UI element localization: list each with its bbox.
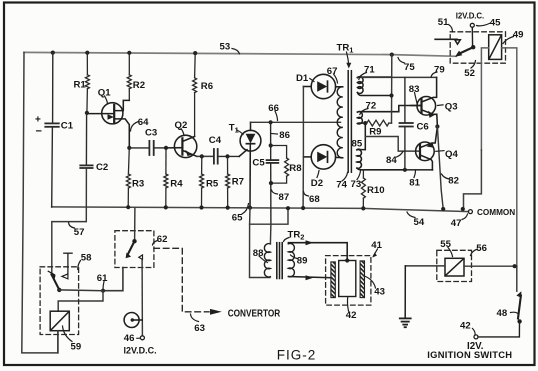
resistor R2: [127, 53, 131, 101]
node R5 rail junction: [199, 205, 203, 209]
svg-text:C6: C6: [417, 122, 429, 133]
leader 55: [448, 248, 453, 257]
svg-text:R5: R5: [206, 178, 219, 189]
svg-text:81: 81: [409, 177, 420, 188]
svg-text:R1: R1: [74, 79, 87, 90]
LEADERS: [63, 23, 518, 342]
node right rail 56 junction: [513, 264, 517, 268]
svg-text:I2V.D.C.: I2V.D.C.: [124, 346, 157, 356]
arrow convertor: [210, 309, 222, 315]
leader 52: [471, 61, 476, 69]
lamp electrode 43 left bar: [331, 262, 335, 298]
leader 84: [397, 152, 404, 158]
svg-text:C4: C4: [209, 135, 222, 146]
leader 49: [503, 37, 514, 44]
leader 53: [232, 49, 240, 54]
svg-text:67: 67: [327, 66, 338, 77]
leader 73: [357, 171, 361, 180]
svg-text:C2: C2: [96, 162, 108, 173]
node 66 junction: [269, 120, 273, 124]
svg-text:59: 59: [71, 341, 82, 352]
svg-text:53: 53: [220, 41, 231, 52]
svg-text:82: 82: [448, 175, 459, 186]
diode D2: [303, 145, 342, 169]
node lamp electrode top junction: [345, 258, 349, 262]
svg-text:74: 74: [336, 180, 347, 191]
leader 67: [334, 74, 338, 83]
dashed wire 63 to convertor: [154, 248, 209, 311]
terminal 46: [140, 336, 144, 340]
svg-text:66: 66: [268, 103, 279, 114]
svg-text:43: 43: [374, 286, 385, 297]
wire 84 path winding 85 to Q4 base: [365, 137, 420, 152]
wire 79 box top edge: [357, 76, 436, 78]
transformer TR1 primary winding 67: [337, 87, 343, 158]
svg-text:C5: C5: [252, 158, 265, 169]
node bus junction 75: [390, 53, 394, 57]
leader 89: [291, 255, 298, 259]
dashed enclosure 55: [437, 250, 472, 281]
node R8 bottom junction: [269, 181, 273, 185]
svg-text:58: 58: [81, 253, 92, 264]
node 81 C6 junction: [403, 168, 407, 172]
resistor R8: [271, 146, 289, 184]
leader T1: [237, 130, 244, 135]
node R3 rail junction: [126, 205, 130, 209]
leader 54: [407, 212, 415, 218]
transformer TR2 core: [277, 243, 282, 279]
lamp 46: [124, 313, 142, 328]
svg-text:75: 75: [404, 62, 415, 73]
wire left rail down to relay 59: [22, 52, 58, 353]
leader TR2: [284, 238, 290, 242]
svg-text:79: 79: [434, 64, 445, 75]
switch 51 arm: [455, 23, 475, 57]
svg-text:48: 48: [497, 308, 508, 319]
node winding 71 bottom junction: [389, 93, 393, 97]
svg-text:COMMON: COMMON: [477, 208, 515, 217]
leader 81: [414, 171, 416, 178]
dashed enclosure 58: [40, 267, 79, 335]
svg-text:52: 52: [464, 68, 475, 79]
svg-text:83: 83: [409, 84, 420, 95]
leader 51: [449, 25, 453, 32]
capacitor C1: [45, 53, 59, 207]
leader 45: [477, 23, 491, 26]
svg-text:63: 63: [194, 323, 205, 334]
wire Q2 emitter row: [197, 155, 214, 157]
svg-text:42: 42: [346, 310, 357, 321]
resistor R5: [200, 156, 204, 208]
svg-text:R2: R2: [133, 80, 145, 91]
svg-text:85: 85: [352, 138, 363, 149]
leader Q4: [436, 150, 444, 153]
capacitor C3: [129, 141, 166, 155]
transformer TR1 core: [348, 71, 351, 173]
leader 58: [78, 261, 81, 270]
svg-text:55: 55: [440, 239, 451, 250]
transistor Q1: [87, 100, 129, 147]
svg-text:64: 64: [138, 117, 149, 128]
resistor R7: [226, 156, 230, 208]
leader Q3: [438, 104, 444, 107]
resistor R3: [126, 148, 130, 208]
resistor R9: [367, 120, 392, 126]
leader 47: [462, 214, 468, 220]
relay 55: [445, 258, 464, 276]
svg-text:62: 62: [157, 234, 168, 245]
node 61 junction: [101, 289, 105, 293]
dashed enclosure 41: [326, 256, 371, 306]
node emitter rail junction: [441, 207, 445, 211]
wire T1 cathode lower loop TR2: [250, 208, 289, 278]
node Q1 base junction: [85, 111, 89, 115]
leader 75: [398, 58, 405, 64]
node 64 junction: [127, 146, 131, 150]
node 52 rail junction: [461, 207, 465, 211]
leader TR1 arrowhead: [346, 63, 351, 69]
svg-text:47: 47: [451, 218, 462, 229]
svg-text:88: 88: [253, 248, 264, 259]
dashed enclosure 62: [115, 231, 154, 268]
svg-text:T1: T1: [229, 123, 239, 135]
svg-text:84: 84: [386, 155, 397, 166]
wire emitters to rail: [437, 127, 443, 210]
leader 42 ignition: [473, 329, 476, 336]
svg-text:R9: R9: [369, 127, 381, 138]
svg-text:72: 72: [366, 101, 377, 112]
transformer TR1 secondary winding 72: [357, 106, 421, 124]
svg-text:56: 56: [476, 243, 487, 254]
ground: [400, 266, 411, 327]
wire 62 contact to lamp 46 terminal: [141, 260, 143, 336]
node TR2 right rail junction: [286, 206, 290, 210]
svg-text:51: 51: [438, 17, 449, 28]
switch 48 ignition: [474, 291, 522, 339]
svg-text:TR2: TR2: [288, 229, 305, 241]
leader 56: [471, 249, 478, 256]
svg-text:+: +: [35, 115, 41, 126]
svg-text:Q3: Q3: [445, 102, 458, 113]
node bus junction R6: [193, 51, 197, 55]
leader 74: [342, 173, 348, 182]
leader 48: [511, 312, 518, 313]
wire node 66 row: [251, 121, 341, 123]
leader TR1 arrow: [347, 52, 349, 66]
wire TR2 secondary top lead to lamp: [288, 240, 347, 260]
svg-text:D1: D1: [296, 73, 309, 84]
leader 68: [304, 192, 309, 197]
wire TR2 secondary bottom lead to lamp: [288, 275, 331, 280]
wire diode branch 68: [302, 87, 304, 209]
node R7 junction: [225, 154, 229, 158]
leader 61: [103, 282, 104, 290]
leader 41 arrow: [373, 249, 377, 256]
wire bus to R9 vertical 75 branch: [391, 55, 393, 124]
leader 46: [137, 337, 141, 339]
wire relay right tap down right rail: [502, 48, 517, 266]
wire relay left tap to common: [481, 48, 488, 150]
relay 59: [50, 311, 69, 331]
leader 43: [366, 277, 376, 289]
wire top supply bus 53: [24, 52, 456, 56]
terminal COMMON: [468, 210, 472, 214]
wire 57 from C2 to switch 58: [52, 168, 87, 273]
svg-text:R3: R3: [132, 178, 144, 189]
svg-text:87: 87: [279, 192, 290, 203]
leader 62: [153, 241, 158, 246]
leader Q1: [105, 96, 108, 104]
leader 41 arrowhead: [373, 253, 378, 258]
svg-text:IGNITION SWITCH: IGNITION SWITCH: [427, 349, 512, 360]
transformer TR1 secondary winding 71: [357, 77, 391, 96]
svg-text:TR1: TR1: [337, 43, 354, 55]
node R10 rail junction: [361, 206, 365, 210]
svg-text:45: 45: [490, 17, 501, 28]
svg-text:D2: D2: [311, 178, 323, 189]
relay 49: [489, 35, 502, 60]
capacitor C2: [80, 113, 92, 168]
wire ground to relay 55 to right rail: [405, 265, 445, 267]
svg-text:86: 86: [279, 130, 290, 141]
leader 79: [431, 72, 437, 77]
node 68 rail junction: [301, 206, 305, 210]
thyristor T1: [239, 122, 261, 207]
node R9 left junction: [363, 121, 367, 125]
transistor Q2: [166, 135, 197, 157]
resistor R1: [85, 53, 89, 113]
svg-text:R8: R8: [289, 163, 302, 174]
svg-text:65: 65: [232, 212, 243, 223]
leader 82: [442, 174, 450, 179]
leader 42 lamp: [347, 297, 348, 311]
leader 72: [360, 109, 368, 115]
switch 51 contact stub: [435, 39, 460, 44]
leader 59: [63, 326, 73, 342]
svg-text:FIG-2: FIG-2: [277, 347, 317, 362]
svg-text:46: 46: [124, 333, 135, 344]
wire 62 box left lead to node 61: [103, 268, 123, 291]
leader Q2: [181, 129, 184, 136]
transistor Q3: [411, 77, 437, 126]
resistor R4: [164, 148, 168, 208]
node bus junction R2: [127, 51, 131, 55]
svg-text:C1: C1: [61, 120, 74, 131]
svg-text:42: 42: [460, 320, 471, 331]
node R7 rail junction: [226, 206, 230, 210]
node Q2 base junction: [164, 146, 168, 150]
wire switch 58 arm to node 61: [59, 289, 103, 292]
wire 81 conductor box bottom: [405, 169, 433, 171]
svg-text:R4: R4: [170, 178, 183, 189]
node Q3 Q4 emitter junction: [435, 124, 439, 128]
svg-text:49: 49: [513, 29, 524, 40]
svg-text:89: 89: [297, 255, 308, 266]
node bus junction C1: [51, 51, 55, 55]
svg-text:R6: R6: [201, 81, 213, 92]
leader 66: [275, 111, 278, 121]
svg-text:Q1: Q1: [98, 88, 111, 99]
transistor Q4: [416, 127, 438, 170]
svg-text:71: 71: [364, 65, 375, 76]
lamp electrode 43 right bar: [360, 261, 364, 298]
svg-text:I2V.D.C.: I2V.D.C.: [456, 12, 484, 21]
wire relay 59 bottom lead: [57, 331, 59, 353]
diode D1: [303, 74, 342, 98]
svg-text:−: −: [36, 126, 42, 138]
svg-text:C3: C3: [145, 128, 157, 139]
svg-text:61: 61: [97, 273, 108, 284]
svg-text:Q2: Q2: [175, 120, 188, 131]
wire node 61 to relay 59: [58, 291, 103, 312]
svg-text:CONVERTOR: CONVERTOR: [228, 308, 281, 319]
leader 88: [259, 256, 268, 263]
svg-text:54: 54: [414, 217, 425, 228]
lamp electrode 42 middle: [339, 261, 356, 297]
resistor R6: [193, 53, 197, 136]
wire bottom common rail 54/65: [52, 207, 469, 212]
leader 63: [191, 314, 199, 322]
switch 58: [48, 253, 72, 292]
node bus junction R1: [85, 51, 89, 55]
svg-text:68: 68: [309, 194, 320, 205]
svg-text:57: 57: [74, 227, 85, 238]
leader D2: [317, 171, 319, 178]
leader 65: [242, 204, 249, 215]
node R5 junction: [200, 154, 204, 158]
dashed enclosure 51: [450, 32, 505, 63]
capacitor C6: [400, 77, 413, 169]
resistor R10: [361, 170, 365, 209]
svg-text:73: 73: [351, 179, 362, 190]
leader 71: [359, 73, 367, 80]
svg-text:R7: R7: [232, 177, 244, 188]
transformer TR2 primary winding 88: [264, 244, 270, 277]
node R8 top junction: [269, 143, 273, 147]
transformer TR1 secondary winding 85: [357, 123, 433, 170]
capacitor C4: [214, 149, 239, 164]
leader 87: [272, 190, 278, 194]
svg-text:41: 41: [371, 240, 382, 251]
leader 86: [271, 133, 277, 136]
switch 62: [126, 208, 143, 259]
svg-text:Q4: Q4: [445, 149, 458, 160]
leader 83: [415, 93, 418, 104]
leader 57: [69, 223, 75, 229]
node T1 bottom rail junction: [248, 206, 252, 210]
leader D1: [310, 79, 314, 82]
leader 64: [131, 122, 139, 132]
wire TR2 primary top lead 87: [269, 224, 272, 244]
node R4 rail junction: [164, 205, 168, 209]
svg-text:R10: R10: [367, 185, 385, 196]
capacitor C5: [267, 122, 279, 224]
transformer TR2 secondary winding 89: [288, 243, 294, 276]
